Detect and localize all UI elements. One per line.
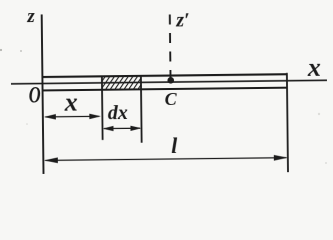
svg-text:x: x bbox=[64, 88, 78, 117]
svg-text:dx: dx bbox=[108, 102, 128, 124]
svg-text:x: x bbox=[307, 53, 321, 82]
svg-text:z: z bbox=[26, 6, 35, 27]
svg-text:O: O bbox=[29, 83, 41, 108]
svg-text:z′: z′ bbox=[175, 9, 190, 31]
svg-text:C: C bbox=[165, 89, 178, 109]
